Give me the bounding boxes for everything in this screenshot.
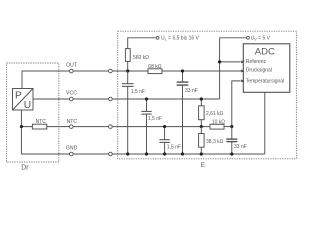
node referenz junction (218, 60, 221, 63)
svg-text:U: U (24, 100, 31, 111)
supply rail UV wire (220, 38, 247, 99)
capacitor 1,5 nF (OUT filter) (122, 71, 145, 154)
node OUT/pull-up junction (126, 69, 129, 72)
svg-text:GND: GND (66, 146, 78, 152)
pin arrow Temperatursignal (241, 79, 244, 82)
svg-text:UL = 5,5 bis 16 V: UL = 5,5 bis 16 V (161, 36, 200, 42)
resistor 68 kOhm (148, 64, 162, 74)
svg-text:VCC: VCC (66, 91, 77, 97)
node cap3-ntc (163, 125, 166, 128)
wire internal ground of sensor (20, 110, 22, 154)
wire ADC ground (264, 92, 266, 154)
svg-text:1,5 nF: 1,5 nF (167, 145, 181, 151)
connector terminals (sensor side) (70, 69, 74, 156)
thermistor NTC (32, 119, 46, 129)
svg-text:OUT: OUT (66, 63, 78, 69)
svg-text:68 kΩ: 68 kΩ (148, 64, 161, 70)
svg-text:38,3 kΩ: 38,3 kΩ (206, 139, 224, 145)
resistor 560 kOhm (125, 49, 149, 71)
svg-text:P: P (15, 90, 22, 101)
node cap33-out (181, 69, 184, 72)
node 38,3k-gnd (200, 152, 203, 155)
node sensor NTC-gnd junction (20, 125, 23, 128)
svg-text:NTC: NTC (67, 119, 78, 125)
svg-text:1,5 nF: 1,5 nF (148, 116, 162, 122)
svg-text:Drucksignal: Drucksignal (246, 68, 272, 74)
node tsig junction (230, 125, 233, 128)
sensor element P/U box U1 (13, 89, 34, 112)
resistor 10 kOhm (210, 119, 225, 129)
wire VCC row (33, 98, 220, 100)
svg-text:1,5 nF: 1,5 nF (131, 89, 145, 95)
node cap3-gnd (163, 152, 166, 155)
wire GND row (21, 153, 264, 155)
capacitor 1,5 nF (VCC filter) (141, 99, 162, 154)
svg-text:ADC: ADC (255, 46, 275, 57)
terminal UL (156, 36, 159, 39)
node 2,61k-vcc (200, 97, 203, 100)
wire Temperatursignal (232, 81, 241, 127)
node cap2-vcc (145, 97, 148, 100)
capacitor 33 nF (signal filter) (177, 71, 198, 154)
svg-text:UV = 5 V: UV = 5 V (251, 36, 271, 42)
svg-text:560 kΩ: 560 kΩ (133, 55, 149, 61)
resistor 38,3 kOhm (199, 127, 224, 154)
svg-text:Dr: Dr (21, 164, 29, 171)
wire NTC row (21, 126, 210, 128)
pin arrow Drucksignal (241, 70, 244, 73)
node divider-ntc (200, 125, 203, 128)
svg-text:Referenz: Referenz (246, 59, 267, 65)
ECU box E (dashed) (118, 31, 297, 159)
capacitor 33 nF (temperature filter) (226, 127, 246, 154)
svg-text:10 kΩ: 10 kΩ (212, 119, 225, 125)
connector terminals (ECU side) (109, 69, 113, 156)
node cap2-gnd (145, 152, 148, 155)
svg-text:2,61 kΩ: 2,61 kΩ (206, 111, 224, 117)
capacitor 1,5 nF (NTC filter) (159, 127, 181, 154)
supply rail UL wire (128, 38, 156, 49)
resistor 2,61 kOhm (199, 99, 224, 127)
wire Referenz (220, 61, 241, 63)
sensor box Dr (dashed) (7, 63, 59, 162)
svg-text:NTC: NTC (36, 119, 47, 125)
svg-text:33 nF: 33 nF (185, 88, 198, 94)
svg-text:Temperatursignal: Temperatursignal (246, 79, 284, 85)
svg-text:33 nF: 33 nF (234, 144, 247, 150)
op-amp/ADC block U2 (243, 44, 289, 93)
node cap33b-gnd (230, 152, 233, 155)
node cap33-gnd (181, 152, 184, 155)
terminal UV (247, 36, 250, 39)
pin arrow Referenz (241, 60, 244, 63)
wire OUT row (22, 71, 243, 89)
svg-text:E: E (201, 162, 205, 169)
node cap1-gnd (126, 152, 129, 155)
